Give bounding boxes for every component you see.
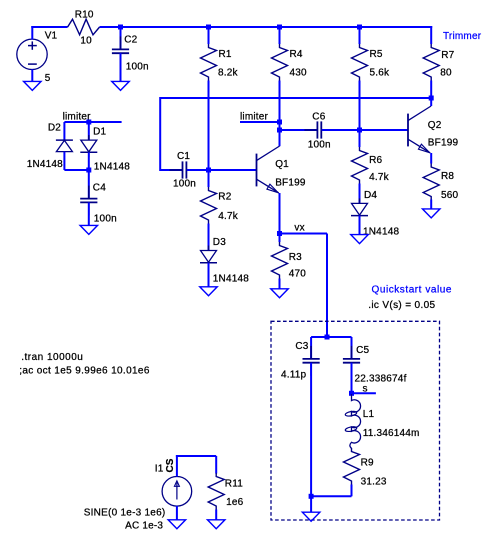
svg-text:Trimmer: Trimmer (443, 31, 482, 42)
capacitor C3 (310, 346, 312, 359)
wire R4 to Q1 collector (279, 81, 281, 147)
svg-text:100n: 100n (173, 179, 196, 190)
junction node s (349, 391, 354, 396)
junction R5 top (357, 25, 362, 30)
ground R3 (271, 289, 289, 298)
resistor R3 (272, 242, 288, 279)
current source I1 (162, 477, 192, 507)
wire Q2 emitter (430, 153, 432, 164)
wire Q1 base (209, 169, 257, 171)
wire R6 top (359, 130, 361, 147)
svg-text:L1: L1 (363, 409, 375, 420)
capacitor C6 (304, 129, 317, 131)
ground R11 (207, 520, 225, 529)
wire C5 bottom (351, 363, 353, 394)
wire I1 to R11 (176, 455, 216, 457)
svg-text:1N4148: 1N4148 (27, 159, 63, 170)
wire V1 to ground (31, 69, 33, 81)
svg-text:31.23: 31.23 (361, 477, 387, 488)
ground D3 (200, 287, 218, 296)
svg-text:C6: C6 (312, 112, 325, 123)
wire Q2 collector (430, 98, 432, 106)
wire C5 top (351, 337, 353, 359)
svg-text:D2: D2 (48, 123, 61, 134)
junction C6 R5 R6 (357, 128, 362, 133)
junction C1 R1 R2 base (206, 168, 211, 173)
resistor R8 (423, 164, 439, 201)
svg-text:R7: R7 (441, 50, 454, 61)
wire R2 top (208, 170, 210, 187)
inductor L1 (350, 394, 361, 448)
svg-text:D3: D3 (213, 237, 226, 248)
wire D4 to ground (359, 216, 361, 235)
ground I1 (168, 520, 186, 529)
transistor Q2 BF199 (408, 106, 431, 153)
svg-text:1N4148: 1N4148 (94, 162, 130, 173)
wire I1 to ground (176, 506, 178, 520)
svg-text:C4: C4 (93, 182, 106, 193)
svg-text:100n: 100n (308, 139, 331, 150)
junction R4 top (277, 25, 282, 30)
wire C3 top (310, 337, 312, 359)
wire C2 top (120, 27, 122, 49)
svg-text:4.7k: 4.7k (218, 211, 239, 222)
resistor R7 (423, 44, 439, 81)
wire R6 to D4 (359, 184, 361, 204)
junction crystal bottom (309, 494, 314, 499)
svg-text:R10: R10 (75, 10, 94, 21)
wire R11 to ground (215, 510, 217, 520)
svg-text:I1: I1 (155, 464, 164, 475)
wire R2 to D3 (208, 224, 210, 251)
wire feedback left leg (159, 97, 161, 171)
resistor R10 (68, 19, 100, 35)
wire R3 to ground (279, 279, 281, 290)
svg-text:C1: C1 (177, 151, 190, 162)
svg-text:430: 430 (290, 67, 308, 78)
wire to C1 left (160, 169, 182, 171)
ground C4 (80, 225, 98, 234)
wire R1 bottom (208, 81, 210, 171)
wire I1 top (176, 455, 178, 476)
wire D1 bottom lead (88, 152, 90, 170)
junction crystal top (325, 335, 330, 340)
svg-text:Q1: Q1 (275, 159, 289, 170)
resistor R5 (352, 44, 368, 81)
ground D4 (351, 235, 369, 244)
junction limiter top (86, 120, 91, 125)
ground V1 (24, 81, 42, 90)
resistor R6 (352, 147, 368, 184)
wire C6 to Q2 base (322, 129, 408, 131)
wire V1 top (31, 26, 33, 39)
ground R8 (422, 209, 440, 218)
svg-text:CS: CS (165, 458, 176, 472)
crystal model dashed box (271, 321, 440, 520)
capacitor C4 (88, 186, 90, 199)
junction C2 top (118, 25, 123, 30)
svg-text:R3: R3 (289, 252, 302, 263)
svg-text:1N4148: 1N4148 (363, 226, 399, 237)
transistor Q1 BF199 (257, 146, 280, 193)
wire D2 top lead (63, 122, 65, 140)
wire vx down to crystal (326, 234, 328, 338)
diode D3 (208, 246, 210, 251)
svg-text:BF199: BF199 (428, 138, 459, 149)
svg-text:vx: vx (294, 222, 304, 233)
svg-text:5: 5 (45, 73, 51, 84)
svg-text:.tran 10000u: .tran 10000u (21, 352, 83, 363)
wire vx horizontal (280, 233, 328, 235)
svg-text:V1: V1 (45, 31, 58, 42)
wire D2 bottom lead (63, 152, 65, 170)
svg-text:AC 1e-3: AC 1e-3 (125, 521, 163, 532)
wire R8 to ground (430, 200, 432, 209)
diode D4 (359, 198, 361, 203)
svg-text:470: 470 (289, 269, 307, 280)
svg-text:R11: R11 (225, 478, 243, 489)
wire R9 bottom (351, 485, 353, 497)
svg-text:C3: C3 (295, 341, 308, 352)
svg-text:100n: 100n (94, 213, 117, 224)
junction limiter bottom (86, 168, 91, 173)
wire D3 to ground (208, 263, 210, 287)
svg-text:Quickstart value: Quickstart value (372, 285, 453, 296)
svg-text:R9: R9 (361, 458, 374, 469)
svg-text:4.7k: 4.7k (369, 172, 390, 183)
wire C3 bottom (310, 363, 312, 497)
wire to crystal ground (310, 496, 312, 512)
wire feedback top (160, 97, 432, 99)
diode D1 (88, 135, 90, 140)
wire R3 top (279, 234, 281, 243)
wire Q1 emitter (279, 193, 281, 234)
ground C2 (112, 81, 130, 90)
wire R5 top (359, 27, 361, 44)
wire C6 left (280, 129, 318, 131)
svg-text:D4: D4 (364, 190, 377, 201)
wire R7 bottom (430, 81, 432, 100)
wire to C4 (88, 170, 90, 199)
capacitor C1 (170, 169, 183, 171)
svg-text:R6: R6 (369, 155, 382, 166)
svg-text:D1: D1 (93, 127, 106, 138)
resistor R2 (201, 187, 217, 224)
svg-text:SINE(0 1e-3 1e6): SINE(0 1e-3 1e6) (84, 508, 166, 519)
resistor R9 (344, 448, 360, 485)
resistor R11 (208, 473, 224, 510)
svg-text:R5: R5 (370, 49, 383, 60)
wire top rail (100, 26, 433, 28)
junction Q2 collector (429, 96, 434, 101)
svg-text:;ac oct 1e5 9.99e6 10.01e6: ;ac oct 1e5 9.99e6 10.01e6 (19, 365, 150, 376)
svg-text:8.2k: 8.2k (218, 67, 239, 78)
wire limiter top stub (89, 121, 122, 123)
svg-text:R8: R8 (441, 171, 454, 182)
junction vx (277, 231, 282, 236)
svg-text:R4: R4 (290, 49, 303, 60)
wire D1 top lead (88, 122, 90, 140)
wire node s stub (352, 392, 376, 394)
resistor R4 (272, 44, 288, 81)
svg-text:5.6k: 5.6k (370, 67, 391, 78)
wire crystal top (311, 336, 351, 338)
junction C6 left (277, 128, 282, 133)
capacitor C5 (351, 346, 353, 359)
wire C1 right (187, 169, 209, 171)
svg-text:Q2: Q2 (428, 120, 442, 131)
svg-text:R1: R1 (219, 49, 232, 60)
wire limiter bottom (64, 169, 88, 171)
resistor R1 (201, 44, 217, 81)
svg-text:1e6: 1e6 (226, 497, 244, 508)
wire R4 top (279, 27, 281, 44)
svg-text:10: 10 (80, 36, 92, 47)
diode D2 (56, 139, 73, 141)
svg-text:BF199: BF199 (275, 177, 306, 188)
svg-text:C2: C2 (124, 35, 137, 46)
svg-text:limiter: limiter (240, 112, 269, 123)
svg-text:4.11p: 4.11p (281, 370, 307, 381)
svg-text:R2: R2 (218, 192, 231, 203)
wire C2 bottom (120, 53, 122, 81)
svg-text:1N4148: 1N4148 (213, 274, 249, 285)
svg-text:11.346144m: 11.346144m (363, 428, 420, 439)
wire R5 bottom (359, 81, 361, 131)
wire limiter top left (64, 121, 88, 123)
wire V1 to R10 (31, 26, 67, 28)
svg-text:560: 560 (441, 190, 459, 201)
wire limiter stub right (240, 121, 280, 123)
svg-text:.ic V(s) = 0.05: .ic V(s) = 0.05 (368, 300, 435, 311)
capacitor C2 (120, 36, 122, 49)
svg-text:100n: 100n (126, 62, 149, 73)
wire crystal bottom (311, 495, 351, 497)
wire C4 bottom (88, 202, 90, 225)
voltage source V1 (17, 39, 47, 69)
svg-text:C5: C5 (356, 345, 369, 356)
wire R7 top (430, 26, 432, 44)
junction R1 top (206, 25, 211, 30)
wire R1 top (208, 27, 210, 44)
svg-text:80: 80 (440, 67, 452, 78)
junction limiter Q1 (277, 120, 282, 125)
ground crystal (302, 512, 320, 521)
wire R11 top (215, 456, 217, 474)
